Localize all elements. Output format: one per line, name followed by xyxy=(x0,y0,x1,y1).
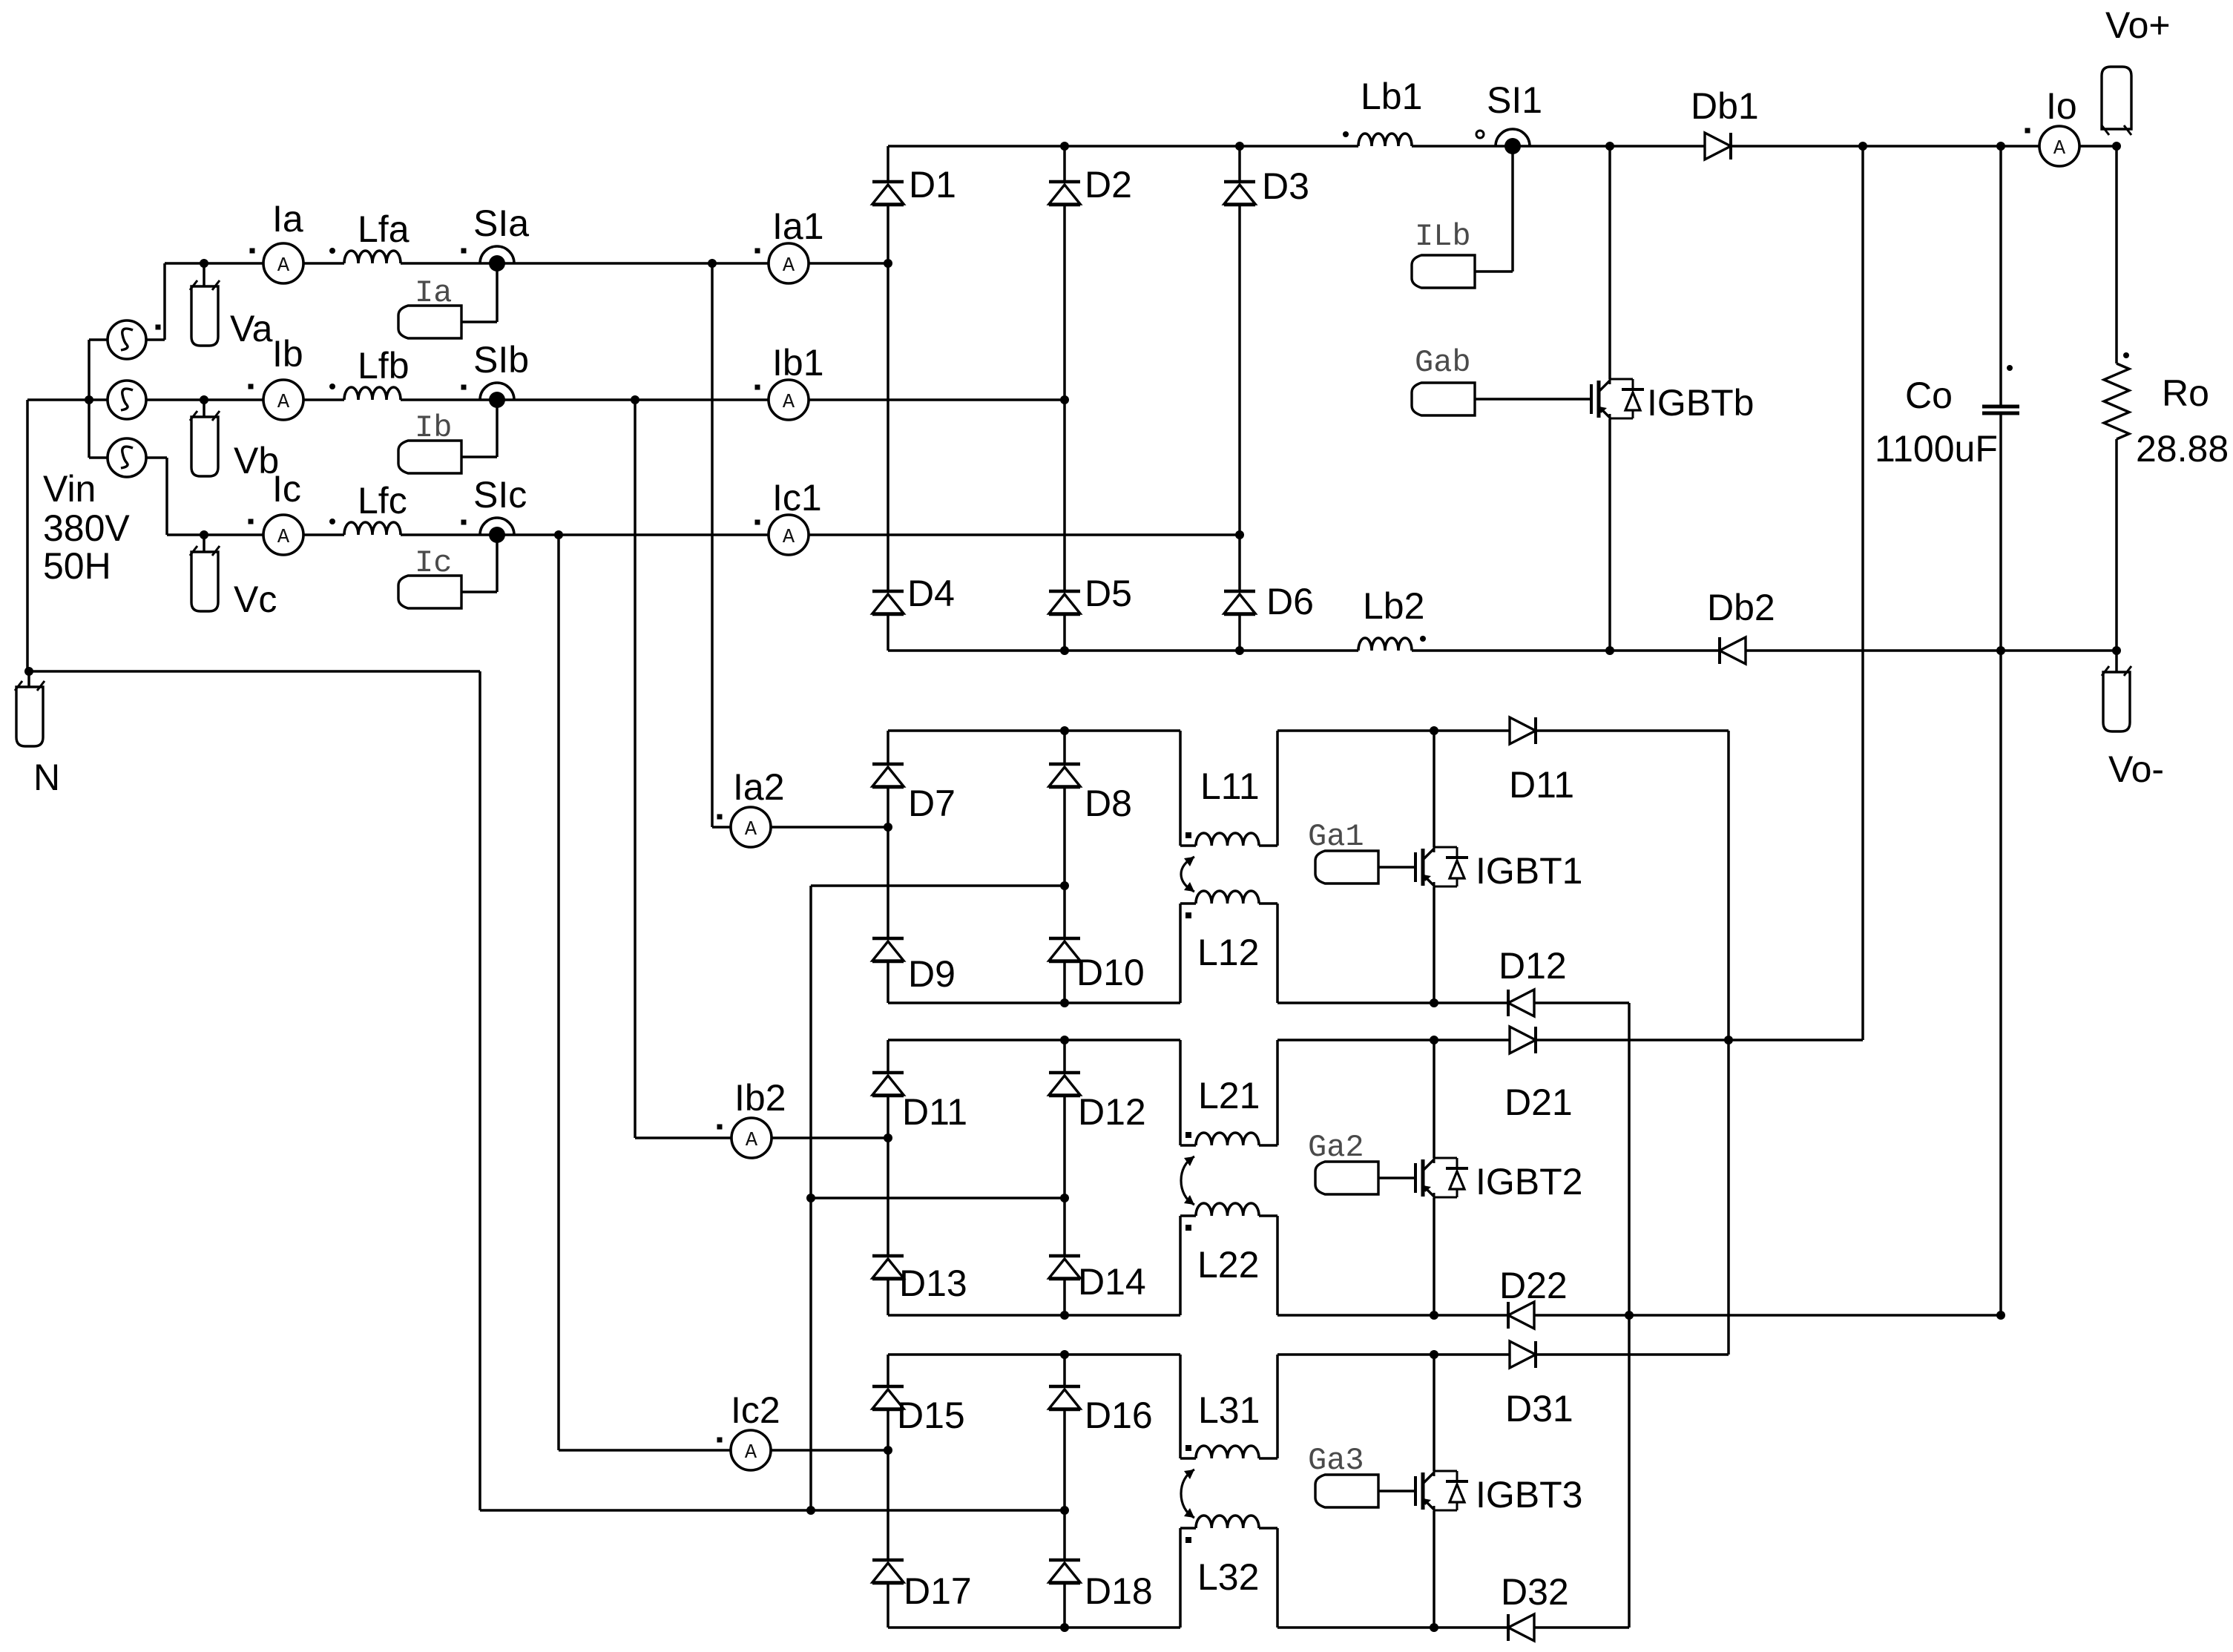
wire D7 column upper xyxy=(887,731,889,764)
diode D6 xyxy=(1224,590,1255,593)
svg-text:Ia2: Ia2 xyxy=(733,766,785,808)
wire Ro branch lower xyxy=(2115,439,2118,651)
inductor Lb2 xyxy=(1358,638,1412,651)
svg-text:Db2: Db2 xyxy=(1707,587,1775,628)
ammeter Ia xyxy=(263,243,303,283)
wire L22 left riser xyxy=(1179,1216,1182,1315)
wire D7-D9 column xyxy=(887,788,889,938)
svg-text:Ga2: Ga2 xyxy=(1308,1130,1364,1165)
wire bridge3 col2 to neutral xyxy=(811,1197,1065,1199)
resistor Ro xyxy=(2104,363,2129,439)
wire phase C segment 2 xyxy=(303,533,344,536)
svg-text:Ro: Ro xyxy=(2162,372,2209,414)
wire phase C segment 1 xyxy=(167,533,263,536)
svg-text:D1: D1 xyxy=(909,164,956,205)
node bridge2 col2 junction xyxy=(1060,881,1069,890)
wire Vo- lead xyxy=(2115,651,2118,672)
inductor L21 xyxy=(1180,1144,1196,1147)
wire phase B segment 2 xyxy=(303,398,344,401)
svg-text:L11: L11 xyxy=(1200,766,1260,807)
svg-text:IGBTb: IGBTb xyxy=(1647,382,1754,424)
diode D22 clamp xyxy=(1508,1302,1534,1329)
wire neutral row xyxy=(27,670,480,673)
voltage sensor Vb xyxy=(191,417,218,476)
wire Va tap xyxy=(203,263,205,286)
wire cell2 output xyxy=(1536,1039,1863,1041)
ammeter Io xyxy=(2039,126,2079,166)
diode D11 bridge xyxy=(872,1071,904,1075)
svg-text:A: A xyxy=(783,527,795,549)
svg-text:28.88: 28.88 xyxy=(2136,428,2229,470)
svg-text:Lb2: Lb2 xyxy=(1363,585,1424,627)
wire SI1 sense drop xyxy=(1511,146,1514,272)
diode D8 xyxy=(1049,763,1080,766)
svg-text:D11: D11 xyxy=(1509,764,1574,806)
svg-text:IGBT1: IGBT1 xyxy=(1476,850,1582,892)
svg-text:Co: Co xyxy=(1905,375,1953,416)
diode Db1 xyxy=(1705,133,1731,159)
wire bridge2 bottom rail xyxy=(888,1001,1180,1004)
wire phase C segment 4 xyxy=(809,533,1240,536)
wire phase A to Ia2 xyxy=(711,263,714,827)
tag Ia sensor xyxy=(398,306,461,338)
wire IGBTb emitter xyxy=(1608,419,1611,651)
node IGBTb collector top xyxy=(1605,142,1614,151)
svg-text:Ib2: Ib2 xyxy=(734,1077,786,1119)
svg-text:D12: D12 xyxy=(1499,945,1567,987)
wire bridge3 bottom rail xyxy=(888,1314,1180,1317)
wire cell3 output xyxy=(1536,1353,1729,1356)
svg-text:D22: D22 xyxy=(1499,1265,1568,1306)
wire D3 column upper xyxy=(1238,146,1241,182)
wire IGBTb collector xyxy=(1608,146,1611,379)
transistor IGBT3 xyxy=(1414,1476,1417,1506)
node neutral bridge4 col2 xyxy=(1060,1506,1069,1515)
svg-text:D4: D4 xyxy=(907,573,955,614)
node cascade D22 junction xyxy=(1625,1311,1634,1320)
wire bridge2 top rail xyxy=(888,729,1180,732)
wire D4 column lower xyxy=(887,615,889,651)
wire D16-D18 column xyxy=(1063,1410,1066,1560)
inductor Lb1 xyxy=(1358,134,1412,146)
wire IGBT3 collector xyxy=(1433,1355,1435,1471)
svg-text:D2: D2 xyxy=(1085,164,1132,205)
svg-text:380V: 380V xyxy=(43,507,130,549)
wire D32 to cascade xyxy=(1534,1626,1629,1629)
sensor Vo+ xyxy=(2102,67,2131,129)
tag Ib sensor xyxy=(398,441,461,473)
wire phase B segment 1 xyxy=(145,398,263,401)
diode D15 xyxy=(872,1385,904,1389)
node bridge1 col3 bottom xyxy=(1235,646,1244,655)
diode D2 xyxy=(1049,180,1080,184)
svg-text:A: A xyxy=(746,1130,758,1152)
diode D11 boost xyxy=(1510,717,1536,744)
wire D1 column upper xyxy=(887,146,889,182)
svg-text:SIc: SIc xyxy=(473,474,527,516)
wire cell2 top rail xyxy=(1277,1039,1510,1041)
node bridge1 col2 bottom xyxy=(1060,646,1069,655)
transistor IGBT1 xyxy=(1414,852,1417,882)
diode D1 xyxy=(872,180,904,184)
svg-text:D18: D18 xyxy=(1085,1570,1153,1612)
svg-text:SIb: SIb xyxy=(473,339,529,381)
wire IGBT2 emitter xyxy=(1433,1198,1435,1315)
tag Ga1 sensor xyxy=(1315,851,1378,883)
inductor L31 xyxy=(1180,1457,1196,1460)
svg-text:IGBT2: IGBT2 xyxy=(1476,1161,1582,1202)
diode D3 xyxy=(1224,180,1255,184)
wire bridge2 col2 to neutral xyxy=(811,884,1065,887)
svg-text:SI1: SI1 xyxy=(1487,79,1542,121)
wire D12-D14 column xyxy=(1063,1096,1066,1256)
wire Ga1 gate lead xyxy=(1378,866,1415,869)
diode D10 xyxy=(1049,937,1080,941)
wire source C left lead xyxy=(89,456,108,459)
svg-text:A: A xyxy=(745,819,757,841)
svg-text:D8: D8 xyxy=(1085,783,1132,824)
wire output collect vertical 2 xyxy=(1727,731,1730,1355)
node bridge4 col2 top xyxy=(1060,1350,1069,1359)
node phase B bridge junction xyxy=(1060,395,1069,404)
svg-text:L31: L31 xyxy=(1198,1389,1260,1431)
svg-text:Ic2: Ic2 xyxy=(731,1389,780,1431)
wire Ia2 to bridge2 xyxy=(771,826,888,829)
inductor Lfc xyxy=(344,522,401,535)
svg-text:D14: D14 xyxy=(1078,1261,1146,1303)
svg-text:D31: D31 xyxy=(1505,1388,1573,1429)
wire Vc tap xyxy=(203,535,205,552)
svg-text:D12: D12 xyxy=(1078,1091,1146,1133)
wire D1-D4 column xyxy=(887,205,889,591)
svg-text:ILb: ILb xyxy=(1415,219,1471,254)
wire phase A segment 2 xyxy=(303,262,344,265)
node Va tap xyxy=(200,259,208,268)
svg-text:A: A xyxy=(783,392,795,414)
wire cell3 emitter rail xyxy=(1277,1626,1508,1629)
wire phase C dropper xyxy=(165,458,168,535)
node collect D21 junction xyxy=(1724,1036,1733,1044)
svg-text:SIa: SIa xyxy=(473,203,529,244)
diode D12 bridge xyxy=(1049,1071,1080,1075)
svg-text:Gab: Gab xyxy=(1415,345,1471,381)
wire L11 left riser xyxy=(1179,731,1182,846)
svg-text:D13: D13 xyxy=(899,1263,967,1304)
node SI1 xyxy=(1496,129,1530,146)
wire D11 column upper xyxy=(887,1040,889,1073)
wire phase A segment 1 xyxy=(165,262,263,265)
svg-text:Ga1: Ga1 xyxy=(1308,819,1364,855)
svg-text:L12: L12 xyxy=(1197,932,1259,973)
svg-text:D7: D7 xyxy=(908,783,956,824)
node Ib2 bridge junction xyxy=(884,1133,892,1142)
svg-text:N: N xyxy=(33,757,60,798)
wire output collect vertical xyxy=(1861,146,1864,1040)
wire top rail segment 1 xyxy=(888,145,1358,148)
wire bridge4 top rail xyxy=(888,1353,1180,1356)
wire Ga3 gate lead xyxy=(1378,1490,1415,1493)
svg-text:Lfb: Lfb xyxy=(358,345,410,386)
ammeter Ia1 xyxy=(769,243,809,283)
svg-text:A: A xyxy=(277,255,290,277)
wire D12 column upper xyxy=(1063,1040,1066,1073)
coupling arc L21-L22 xyxy=(1181,1156,1194,1205)
node output plus corner xyxy=(2112,142,2121,151)
svg-text:D21: D21 xyxy=(1504,1082,1573,1123)
node output cap branch top xyxy=(1996,142,2005,151)
wire D16 column upper xyxy=(1063,1355,1066,1386)
wire phase C segment 3 xyxy=(401,533,769,536)
node output minus corner xyxy=(2112,646,2121,655)
svg-text:A: A xyxy=(783,255,795,277)
node bridge1 col3 top xyxy=(1235,142,1244,151)
coupling arc L11-L12 xyxy=(1181,857,1194,892)
wire cap branch lower xyxy=(1999,415,2002,1315)
tag ILb sensor xyxy=(1412,255,1475,288)
wire Ga2 gate lead xyxy=(1378,1177,1415,1179)
wire L32 right riser xyxy=(1276,1528,1279,1628)
node bridge2 col2 bottom xyxy=(1060,998,1069,1007)
wire Vb tap xyxy=(203,400,205,417)
diode D13 xyxy=(872,1254,904,1258)
node bridge3 col2 junction xyxy=(1060,1194,1069,1202)
svg-text:Db1: Db1 xyxy=(1691,85,1759,127)
wire L12 right riser xyxy=(1276,904,1279,1003)
AC source Vin phase A xyxy=(108,320,146,359)
node phase C bridge junction xyxy=(1235,530,1244,539)
diode D32 clamp xyxy=(1508,1614,1534,1641)
coupling arc L31-L32 xyxy=(1181,1470,1194,1518)
tag Ga3 sensor xyxy=(1315,1475,1378,1507)
svg-text:1100uF: 1100uF xyxy=(1875,428,1998,470)
wire cell1 output xyxy=(1536,729,1729,732)
wire Gab gate lead xyxy=(1475,398,1591,401)
node Ic2 branch tap xyxy=(554,530,563,539)
svg-text:D17: D17 xyxy=(904,1570,972,1612)
svg-text:A: A xyxy=(277,527,290,549)
node cap bottom junction xyxy=(1996,646,2005,655)
wire neutral bottom row xyxy=(480,1509,1065,1512)
svg-text:D10: D10 xyxy=(1076,952,1145,993)
wire bridge3 top rail xyxy=(888,1039,1180,1041)
voltage sensor Vc xyxy=(191,552,218,611)
svg-text:D15: D15 xyxy=(897,1395,965,1436)
node IGBT1 emitter junction xyxy=(1430,998,1438,1007)
capacitor Co xyxy=(1982,405,2019,409)
svg-text:Ib1: Ib1 xyxy=(772,342,824,384)
wire Ib2 to bridge3 xyxy=(772,1136,888,1139)
node Vb tap xyxy=(200,395,208,404)
wire L11 right riser xyxy=(1276,731,1279,846)
inductor L22 xyxy=(1180,1214,1196,1217)
node IGBT3 collector junction xyxy=(1430,1350,1438,1359)
wire phase B segment 3 xyxy=(401,398,769,401)
node Ib2 branch tap xyxy=(631,395,639,404)
diode D4 xyxy=(872,590,904,593)
wire L31 left riser xyxy=(1179,1355,1182,1458)
node bridge2 col2 top xyxy=(1060,726,1069,735)
wire D18 column lower xyxy=(1063,1584,1066,1628)
wire L31 right riser xyxy=(1276,1355,1279,1458)
wire L21 right riser xyxy=(1276,1040,1279,1145)
wire D17 column lower xyxy=(887,1584,889,1628)
diode D16 xyxy=(1049,1385,1080,1389)
svg-text:Io: Io xyxy=(2046,85,2077,127)
wire source A right lead xyxy=(146,338,165,341)
wire left common vertical xyxy=(26,400,29,671)
diode D18 xyxy=(1049,1559,1080,1562)
svg-text:D11: D11 xyxy=(902,1091,967,1133)
node Ia2 bridge junction xyxy=(884,823,892,832)
tag Gab sensor xyxy=(1412,383,1475,415)
wire bottom rail segment 3 xyxy=(1746,649,2117,652)
wire cascade vertical xyxy=(1628,1003,1631,1628)
node IGBT2 collector junction xyxy=(1430,1036,1438,1044)
ammeter Ib1 xyxy=(769,380,809,420)
ammeter Ic1 xyxy=(769,515,809,555)
wire D22 to cap branch xyxy=(1534,1314,2001,1317)
svg-text:Ia: Ia xyxy=(272,198,303,240)
svg-text:Ib: Ib xyxy=(415,410,452,446)
node Ic2 bridge junction xyxy=(884,1446,892,1455)
svg-text:Vo+: Vo+ xyxy=(2105,4,2171,46)
node SIc xyxy=(480,518,514,535)
sensor Vo- xyxy=(2103,672,2130,731)
svg-text:D5: D5 xyxy=(1085,573,1132,614)
wire D5 column lower xyxy=(1063,615,1066,651)
svg-text:D16: D16 xyxy=(1085,1395,1153,1436)
wire top rail segment 2 xyxy=(1412,145,1704,148)
wire N sensor lead xyxy=(27,671,30,687)
svg-text:Ic1: Ic1 xyxy=(772,477,822,519)
wire source B left lead xyxy=(27,398,108,401)
node IGBT2 emitter junction xyxy=(1430,1311,1438,1320)
wire D13 column lower xyxy=(887,1280,889,1315)
inductor L11 xyxy=(1180,844,1196,847)
node neutral branch bridge3 xyxy=(806,1194,815,1202)
wire IGBT1 emitter xyxy=(1433,887,1435,1003)
svg-text:Ia1: Ia1 xyxy=(772,205,824,247)
wire D9 column lower xyxy=(887,962,889,1003)
node output collect top xyxy=(1858,142,1867,151)
node IGBTb emitter bottom xyxy=(1605,646,1614,655)
diode D14 xyxy=(1049,1254,1080,1258)
ammeter Ic2 xyxy=(731,1430,771,1470)
svg-text:Lfa: Lfa xyxy=(358,208,410,250)
svg-text:Vc: Vc xyxy=(234,579,277,620)
svg-text:Ic: Ic xyxy=(272,468,301,510)
diode D9 xyxy=(872,937,904,941)
wire top rail segment 4 xyxy=(2080,145,2117,148)
svg-text:L32: L32 xyxy=(1197,1556,1259,1598)
tag Ic sensor xyxy=(398,576,461,608)
wire bridge4 bottom rail xyxy=(888,1626,1180,1629)
wire phase A segment 3 xyxy=(401,262,769,265)
node bridge4 col2 bottom xyxy=(1060,1623,1069,1632)
node phase A bridge junction xyxy=(884,259,892,268)
wire source A left lead xyxy=(89,338,108,341)
node source B left junction xyxy=(85,395,93,404)
node bridge3 col2 bottom xyxy=(1060,1311,1069,1320)
wire D2 column upper xyxy=(1063,146,1066,182)
wire IGBT3 emitter xyxy=(1433,1511,1435,1628)
svg-text:Ic: Ic xyxy=(415,545,452,581)
diode Db2 xyxy=(1720,637,1746,664)
svg-text:Lfc: Lfc xyxy=(358,480,407,521)
node IGBT3 emitter junction xyxy=(1430,1623,1438,1632)
inductor Lfb xyxy=(344,387,401,400)
svg-text:Lb1: Lb1 xyxy=(1361,76,1422,117)
node SIb xyxy=(480,383,514,400)
node SIa xyxy=(480,246,514,263)
wire source C right lead xyxy=(145,456,167,459)
ammeter Ic xyxy=(263,515,303,555)
diode D12 clamp xyxy=(1508,990,1534,1016)
svg-text:Va: Va xyxy=(230,308,273,349)
wire phase B to Ib2 xyxy=(634,400,637,1138)
node IGBT1 collector junction xyxy=(1430,726,1438,735)
transistor IGBTb xyxy=(1590,384,1593,414)
transistor IGBT2 xyxy=(1414,1163,1417,1193)
wire L12 left riser xyxy=(1179,904,1182,1003)
wire D8 column upper xyxy=(1063,731,1066,764)
wire D8-D10 column xyxy=(1063,788,1066,938)
inductor Lfa xyxy=(344,251,401,263)
svg-text:D3: D3 xyxy=(1262,165,1309,207)
svg-text:50H: 50H xyxy=(43,545,111,587)
svg-text:A: A xyxy=(277,392,290,414)
svg-text:A: A xyxy=(745,1442,757,1464)
wire phase A segment 4 xyxy=(809,262,888,265)
voltage sensor N xyxy=(16,687,43,746)
inductor L32 xyxy=(1180,1527,1196,1530)
node cap D22 corner xyxy=(1996,1311,2005,1320)
diode D5 xyxy=(1049,590,1080,593)
wire L22 right riser xyxy=(1276,1216,1279,1315)
wire top rail segment 3 xyxy=(1731,145,2039,148)
ammeter Ib2 xyxy=(731,1118,772,1158)
diode D7 xyxy=(872,763,904,766)
svg-text:L21: L21 xyxy=(1198,1075,1260,1116)
diode D17 xyxy=(872,1559,904,1562)
wire cell1 top rail xyxy=(1277,729,1510,732)
voltage sensor Va xyxy=(191,286,218,346)
wire D11-D13 column xyxy=(887,1096,889,1256)
wire D6 column lower xyxy=(1238,615,1241,651)
ammeter Ib xyxy=(263,380,303,420)
svg-text:Ga3: Ga3 xyxy=(1308,1443,1364,1478)
wire D2-D5 column xyxy=(1063,205,1066,591)
wire Ic2 to bridge4 xyxy=(771,1449,888,1452)
wire D15-D17 column xyxy=(887,1410,889,1560)
wire D12 to cascade xyxy=(1534,1001,1629,1004)
ammeter Ia2 xyxy=(731,807,771,847)
wire neutral vertical xyxy=(479,671,481,1510)
wire L21 left riser xyxy=(1179,1040,1182,1145)
tag Ga2 sensor xyxy=(1315,1162,1378,1194)
wire D10 column lower xyxy=(1063,962,1066,1003)
node bridge3 col2 top xyxy=(1060,1036,1069,1044)
wire neutral branch vertical xyxy=(809,886,812,1510)
svg-text:L22: L22 xyxy=(1197,1244,1259,1286)
AC source Vin phase B xyxy=(108,381,146,419)
wire bottom rail segment 2 xyxy=(1412,649,1720,652)
inductor L12 xyxy=(1180,902,1196,905)
wire phase C to Ic2 xyxy=(557,535,560,1450)
wire L32 left riser xyxy=(1179,1528,1182,1628)
svg-text:Vo-: Vo- xyxy=(2108,748,2164,790)
wire D14 column lower xyxy=(1063,1280,1066,1315)
